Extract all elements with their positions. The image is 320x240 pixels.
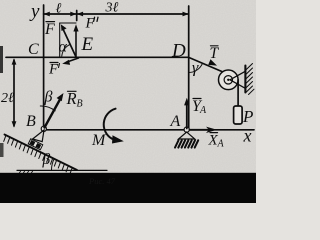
angle beta at incline xyxy=(42,151,55,170)
inclined surface xyxy=(4,135,77,174)
svg-text:A: A xyxy=(199,105,207,116)
svg-text:T: T xyxy=(210,45,220,62)
svg-text:E: E xyxy=(81,34,94,55)
label F' xyxy=(48,62,60,78)
rope pulley to weight xyxy=(237,80,239,106)
svg-text:A: A xyxy=(217,139,225,150)
svg-text:A: A xyxy=(170,113,181,130)
label YA xyxy=(192,98,207,116)
moment M xyxy=(104,109,124,144)
label F'' xyxy=(85,16,99,32)
svg-text:y: y xyxy=(29,1,40,22)
svg-text:β: β xyxy=(42,151,51,168)
svg-text:β: β xyxy=(44,89,53,106)
force F (diagonal arrow) xyxy=(61,24,76,56)
svg-text:F: F xyxy=(48,62,59,78)
rope D to pulley xyxy=(189,57,223,72)
pulley bracket xyxy=(230,71,245,88)
ground line under incline xyxy=(17,170,107,173)
svg-text:C: C xyxy=(28,41,39,58)
force parallelogram at E xyxy=(59,23,61,57)
roller block at B xyxy=(28,130,44,150)
svg-text:F: F xyxy=(44,21,55,38)
svg-text:M: M xyxy=(91,132,107,149)
svg-text:2ℓ: 2ℓ xyxy=(1,91,14,106)
label RB xyxy=(66,89,83,110)
svg-text:Рис. 47: Рис. 47 xyxy=(88,176,116,186)
weight P xyxy=(234,106,243,124)
svg-text:B: B xyxy=(26,113,36,130)
member AD xyxy=(188,6,190,130)
label F xyxy=(44,21,55,38)
pin B xyxy=(41,126,46,131)
edge smudge left xyxy=(0,46,3,73)
svg-text:3ℓ: 3ℓ xyxy=(105,1,119,16)
reaction YA xyxy=(184,98,189,129)
label XA xyxy=(208,133,225,150)
y-axis and member BC xyxy=(43,5,45,130)
svg-text:α: α xyxy=(59,39,68,56)
svg-text:x: x xyxy=(243,126,252,146)
svg-text:γ: γ xyxy=(192,60,199,77)
pin A xyxy=(184,127,189,132)
dimension 2l xyxy=(1,57,44,127)
bottom chord BA and x-axis xyxy=(44,129,254,131)
hatch block at A xyxy=(175,140,198,147)
angle beta at B xyxy=(40,89,55,111)
tension T arrowhead xyxy=(208,59,217,65)
force F'' (vertical arrow at E) xyxy=(73,24,78,56)
force F' (arrow from E down-left) xyxy=(62,58,78,65)
angle gamma xyxy=(189,60,203,77)
reaction RB xyxy=(45,93,64,128)
reaction XA xyxy=(190,127,218,133)
label T xyxy=(210,45,220,62)
svg-text:D: D xyxy=(171,41,186,62)
angle alpha xyxy=(59,39,71,57)
caption strip xyxy=(0,173,256,203)
pulley xyxy=(219,70,239,90)
svg-text:P: P xyxy=(242,107,253,126)
support triangle at A xyxy=(179,132,195,139)
svg-text:B: B xyxy=(77,99,83,110)
dimension l xyxy=(44,2,77,21)
svg-text:ℓ: ℓ xyxy=(56,2,62,17)
dimension 3l xyxy=(77,1,189,17)
top chord CD xyxy=(44,56,189,58)
wall xyxy=(245,64,254,95)
